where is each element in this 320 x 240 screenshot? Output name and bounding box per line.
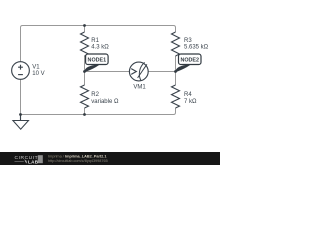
svg-text:4.3 kΩ: 4.3 kΩ: [91, 44, 109, 50]
svg-text:10 V: 10 V: [32, 71, 44, 77]
junction: NODE1 (R1, R2, voltmeter wire): [83, 70, 86, 73]
svg-text:variable Ω: variable Ω: [91, 99, 119, 105]
svg-text:Imprima / Imprima_LAB2_Part2.1: Imprima / Imprima_LAB2_Part2.1: [48, 155, 106, 159]
svg-text:V1: V1: [32, 65, 40, 71]
svg-text:5.635 kΩ: 5.635 kΩ: [184, 44, 209, 50]
svg-text:http://circuitlab.com/c/8yq439: http://circuitlab.com/c/8yq43998765: [48, 159, 108, 163]
wire: NODE1 junction to voltmeter left terminal: [85, 71, 130, 73]
wire: middle branch top stub (top rail to R1): [84, 26, 86, 33]
voltmeter VM1: [129, 62, 148, 81]
resistor R1: [81, 32, 89, 56]
junction: bottom rail with left rail and ground: [19, 113, 22, 116]
junction: top rail with middle branch: [83, 24, 86, 27]
wire: voltmeter right terminal to NODE2 junction: [148, 71, 175, 73]
svg-text:R4: R4: [184, 92, 192, 98]
wire: left rail lower segment (V1 negative terminal to bottom rail): [20, 79, 22, 114]
resistor R2: [81, 85, 89, 108]
node NODE1 flag: [85, 54, 109, 72]
wire: middle branch bottom stub (R2 to bottom rail): [84, 108, 86, 115]
svg-text:7 kΩ: 7 kΩ: [184, 99, 197, 105]
resistor R4: [172, 85, 180, 108]
junction: bottom rail with middle branch: [83, 113, 86, 116]
svg-text:VM1: VM1: [133, 84, 146, 90]
svg-text:NODE1: NODE1: [88, 57, 107, 63]
voltage source V1: [12, 62, 30, 80]
svg-text:R3: R3: [184, 38, 192, 44]
svg-text:LAB: LAB: [28, 159, 39, 164]
footer watermark bar: [0, 152, 220, 165]
svg-text:NODE2: NODE2: [180, 57, 199, 63]
ground: [13, 115, 29, 130]
svg-text:R2: R2: [91, 92, 99, 98]
wire: left rail upper segment + top rail + right branch top stub: [21, 26, 176, 62]
wire: right branch between R3 and R4 through NODE2 junction: [175, 56, 177, 85]
node NODE2 flag: [176, 54, 202, 72]
resistor R3: [172, 32, 180, 56]
wire: right branch below R4 + bottom rail: [21, 108, 176, 115]
junction: NODE2 (R3, R4, voltmeter wire): [174, 70, 177, 73]
wire: middle branch between R1 and R2 through NODE1 junction: [84, 56, 86, 85]
svg-text:R1: R1: [91, 38, 99, 44]
CircuitLab logo: [15, 155, 43, 164]
